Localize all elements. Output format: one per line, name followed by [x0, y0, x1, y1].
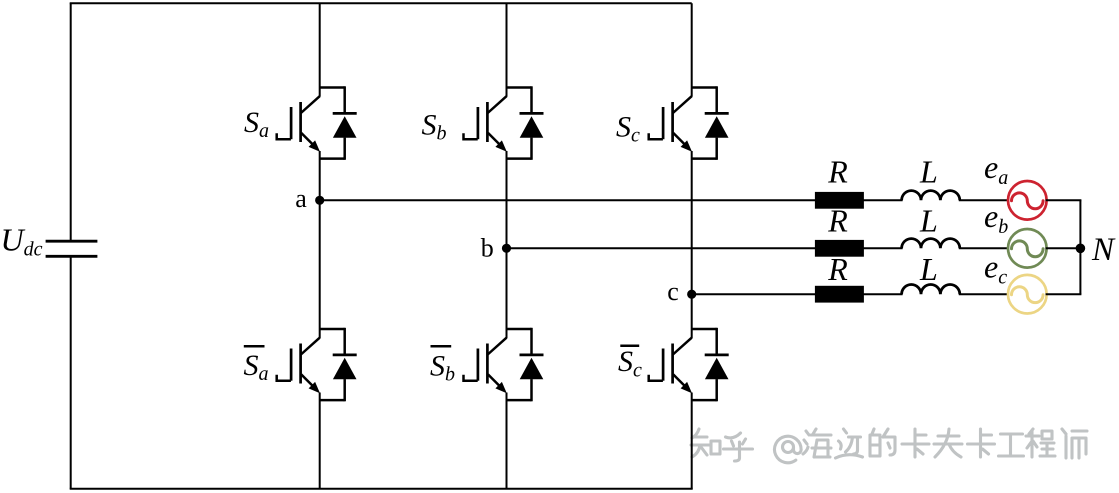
label Sa_bar (S-bar subscript a): [244, 346, 269, 385]
wire: phase c resistor to inductor: [863, 293, 903, 295]
svg-text:R: R: [827, 153, 848, 189]
wire: neutral bus vertical: [1079, 200, 1081, 294]
wire: phase c inductor to AC source: [959, 293, 1009, 295]
svg-text:R: R: [827, 251, 848, 287]
wire: leg a lower emitter-to-rail segment: [319, 393, 321, 489]
svg-text:L: L: [919, 251, 938, 287]
svg-text:L: L: [919, 202, 938, 238]
svg-text:N: N: [1091, 232, 1116, 268]
transistor Sa (IGBT with freewheeling diode): [277, 86, 357, 160]
wire: top DC rail: [70, 2, 692, 4]
watermark "知乎 @海边的卡夫卡工程师" (drawn strokes): [691, 429, 1087, 463]
wire: phase b inductor to AC source: [959, 247, 1009, 249]
node a (phase a output junction dot): [315, 196, 324, 205]
wire: phase a resistor to inductor: [863, 199, 903, 201]
resistor R (phase c) (series resistance, black box): [815, 286, 864, 303]
wire: left DC link upper segment: [70, 3, 72, 241]
wire: phase c AC source to neutral bus: [1046, 293, 1082, 295]
wire: leg b middle segment through node b: [506, 151, 508, 338]
transistor Sb_bar (IGBT with freewheeling diode): [464, 328, 544, 402]
wire: leg b upper collector segment: [506, 3, 508, 97]
wire: left DC link lower segment: [70, 256, 72, 488]
capacitor Udc (DC-link, two plates): [46, 241, 98, 256]
resistor R (phase b) (series resistance, black box): [815, 240, 864, 257]
node c (phase c output junction dot): [687, 290, 696, 299]
wire: leg a upper collector segment: [319, 3, 321, 97]
node N (neutral junction dot): [1076, 244, 1086, 254]
AC source ea (grid EMF): [1008, 181, 1047, 220]
inductor L (phase b) (filter inductance, 3 humps): [902, 239, 960, 249]
label Sb_bar (S-bar subscript b): [430, 346, 455, 385]
wire: phase a AC source to neutral bus: [1046, 199, 1082, 201]
inductor L (phase c) (filter inductance, 3 humps): [902, 285, 960, 295]
transistor Sa_bar (IGBT with freewheeling diode): [277, 328, 357, 402]
wire: leg a middle segment through node a: [319, 151, 321, 338]
transistor Sc (IGBT with freewheeling diode): [649, 86, 729, 160]
inductor L (phase a) (filter inductance, 3 humps): [902, 191, 960, 201]
transistor Sb (IGBT with freewheeling diode): [464, 86, 544, 160]
wire: phase b resistor to inductor: [863, 247, 903, 249]
wire: leg c middle segment through node c: [691, 151, 693, 338]
node b (phase b output junction dot): [502, 244, 511, 253]
resistor R (phase a) (series resistance, black box): [815, 192, 864, 209]
svg-text:b: b: [481, 234, 494, 263]
wire: leg b lower emitter-to-rail segment: [506, 393, 508, 489]
AC source eb (grid EMF): [1008, 229, 1047, 268]
svg-text:L: L: [919, 153, 938, 189]
svg-text:c: c: [667, 277, 679, 306]
label Sc_bar (S-bar subscript c): [618, 345, 642, 381]
wire: phase b AC source to neutral bus: [1046, 247, 1082, 249]
AC source ec (grid EMF): [1008, 275, 1047, 314]
wire: bottom DC rail: [70, 488, 693, 490]
svg-text:R: R: [827, 202, 848, 238]
wire: phase a inductor to AC source: [959, 199, 1009, 201]
wire: phase a from node to resistor R: [320, 199, 816, 201]
svg-text:a: a: [295, 184, 307, 213]
wire: leg c lower emitter-to-rail segment: [691, 393, 693, 489]
wire: leg c upper collector segment: [691, 3, 693, 97]
transistor Sc_bar (IGBT with freewheeling diode): [649, 328, 729, 402]
wire: phase c from node to resistor R: [692, 293, 816, 295]
wire: phase b from node to resistor R: [507, 247, 816, 249]
